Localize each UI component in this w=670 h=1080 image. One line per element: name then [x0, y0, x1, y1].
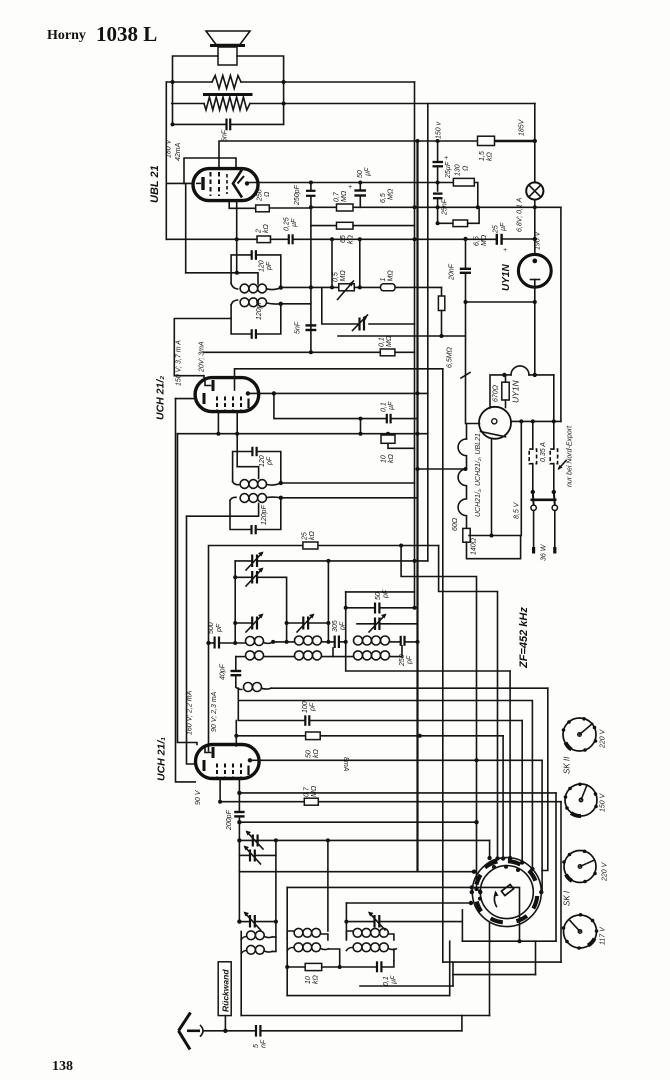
Rueckwand box [218, 962, 231, 1016]
svg-text:kΩ: kΩ [263, 224, 270, 234]
coil M2b [287, 948, 293, 951]
svg-text:500: 500 [208, 622, 215, 634]
svg-text:305: 305 [332, 620, 339, 632]
node tube1 anode [248, 758, 252, 762]
resistor 140 Ohm [463, 528, 470, 542]
resistor output primary [212, 76, 241, 89]
svg-text:+: + [503, 247, 507, 254]
coil L1a [246, 637, 255, 646]
wire row1 [220, 642, 246, 644]
wire bus C x427.8 [427, 104, 429, 561]
svg-text:MΩ: MΩ [386, 335, 393, 347]
knob SK I 220V [562, 850, 597, 884]
resistor 670 Ohm [505, 375, 507, 382]
coil IF1 primary [231, 284, 281, 293]
svg-text:pF: pF [310, 702, 317, 712]
wire 735.8 drop x503.1 [502, 736, 504, 859]
svg-text:10: 10 [381, 455, 388, 463]
resistor 130 Ohm [453, 178, 474, 186]
svg-text:Rückwand: Rückwand [221, 969, 231, 1012]
node heater junction [533, 373, 537, 377]
wire 25k line 545.5 [209, 546, 303, 752]
svg-text:µF: µF [500, 222, 507, 231]
svg-text:670Ω: 670Ω [493, 384, 500, 402]
svg-text:120pF: 120pF [261, 504, 268, 525]
wire below-circle rect 909.9 [461, 910, 463, 941]
node 822 x476.5 [474, 820, 478, 824]
svg-text:150 V: 150 V [600, 792, 607, 812]
svg-text:UCH 21/₁: UCH 21/₁ [156, 737, 168, 781]
wire osc box left [234, 561, 236, 643]
wire screen feed 140.7 [416, 139, 420, 143]
node 190V line [413, 237, 417, 241]
node IF1 top right [279, 285, 283, 289]
svg-text:160 V; 2,2 mA: 160 V; 2,2 mA [187, 690, 194, 735]
wire pot to grid resistor [354, 286, 380, 288]
wire 840 drop x489.6 [489, 840, 491, 858]
trimmer T2 [235, 576, 252, 578]
wire g4 line 369 [235, 369, 443, 378]
resistor 6,5 MOhm lower [438, 222, 453, 224]
tube UCH21/1 [196, 745, 260, 779]
tube1 grids [216, 764, 218, 778]
wire link 418-433 [360, 419, 362, 434]
arrow to fuse [559, 461, 566, 469]
knob SK II 220V [562, 717, 598, 752]
IF2 upper tank [233, 447, 281, 483]
resistor 10 kOhm ant [286, 939, 288, 996]
svg-text:90 V; 2,3 mA: 90 V; 2,3 mA [211, 691, 218, 732]
coil L1b [246, 651, 255, 660]
wire riser x287.2 [286, 887, 288, 938]
wire g2 line 142 [219, 141, 478, 169]
svg-text:0,1: 0,1 [383, 976, 390, 986]
wire UBL21 cathode stub [229, 201, 237, 209]
resistor 2 kOhm [257, 236, 271, 243]
wire antenna line 1030.8 [204, 1030, 255, 1032]
wire IF2b out [281, 497, 418, 499]
wire tube2 left pin [176, 398, 196, 400]
wire cathode line 239.3 [166, 238, 257, 240]
wire IF1 left return [174, 319, 231, 378]
resistor 65 kOhm [311, 225, 337, 227]
wire line 576.5 [401, 546, 476, 890]
coil L3a [354, 636, 363, 645]
svg-text:20nF: 20nF [449, 263, 456, 281]
svg-text:8mA: 8mA [342, 757, 349, 772]
wire IF2 tap return [187, 504, 259, 517]
svg-text:0,1: 0,1 [379, 337, 386, 347]
mains prongs 36W [533, 511, 535, 548]
svg-text:UBL 21: UBL 21 [149, 165, 161, 203]
wire top rail 82 [166, 81, 212, 83]
svg-text:117 V: 117 V [600, 926, 607, 945]
svg-text:kΩ: kΩ [348, 235, 355, 245]
svg-text:1,5: 1,5 [479, 151, 486, 161]
svg-text:kΩ: kΩ [313, 749, 320, 759]
svg-text:MΩ: MΩ [341, 190, 348, 202]
coil M1b [241, 951, 247, 954]
wire line 433.7 [178, 433, 428, 435]
transformer winding [204, 97, 250, 110]
trimmer T1 [251, 555, 253, 568]
wire long 903 [346, 902, 471, 904]
resistor 0,1 MOhm [380, 349, 395, 356]
wire rail to UCH1 grid [187, 516, 196, 764]
capacitor 100pF [304, 715, 306, 726]
trimmer T6 [252, 835, 254, 847]
resistor 1,5 kOhm [478, 136, 495, 145]
svg-text:µF: µF [291, 218, 298, 227]
wire IF2a out [281, 482, 415, 484]
trimmer T5 [357, 623, 374, 625]
svg-text:pF: pF [267, 456, 274, 466]
capacitor 200pF [234, 811, 244, 813]
capacitor 25uF main [496, 234, 498, 245]
tube1 top cathode [205, 748, 211, 753]
speaker LS [206, 31, 250, 65]
tube2 top cathode [205, 381, 211, 386]
wire 760 drop x542.1 [540, 760, 543, 892]
resistor 2 MOhm grid [381, 284, 396, 291]
wire barretter bottom drop [491, 438, 493, 535]
svg-text:6,5MΩ: 6,5MΩ [447, 346, 454, 368]
wire row2 [236, 656, 246, 658]
trimmer T9 [346, 921, 373, 923]
wire grid riser tube1 [235, 721, 237, 747]
capacitor 0,1uF ant [340, 966, 376, 968]
resistor 50 kOhm [306, 732, 321, 740]
capacitor 25uF screen [437, 141, 439, 161]
coil L1c [236, 687, 242, 690]
svg-text:ZF=452 kHz: ZF=452 kHz [518, 607, 530, 669]
wire x461.9 antenna join [461, 1016, 463, 1031]
svg-text:kΩ: kΩ [309, 531, 316, 541]
wire anode1 long 760 [250, 759, 542, 761]
IF1 lower tank [231, 299, 281, 338]
coil IF2 primary [233, 480, 281, 489]
svg-text:0,35 A: 0,35 A [540, 442, 547, 462]
capacitor 5nF tone [225, 119, 227, 131]
svg-text:20V; 3mA: 20V; 3mA [199, 341, 206, 373]
tube UBL21 grids [210, 172, 212, 196]
wire heater left drop [490, 375, 504, 408]
wire 50pF line [346, 591, 415, 593]
tube UCH21/2 [195, 378, 259, 412]
capacitor 250pF [400, 636, 402, 646]
svg-text:150 v: 150 v [436, 121, 443, 139]
wire right loop x560.9 [560, 207, 562, 421]
svg-text:Horny: Horny [47, 28, 86, 43]
wire 124.4 with cap [173, 123, 226, 125]
trimmer T8 [238, 872, 240, 922]
tube UBL21 diode anode [233, 170, 242, 198]
svg-text:pF: pF [266, 261, 273, 271]
coil M2a [287, 931, 294, 939]
node tube2 anode [246, 391, 250, 395]
wire IF1 grid tap [186, 273, 258, 284]
svg-text:180 V: 180 V [166, 138, 173, 158]
wire 40pF chain [235, 657, 237, 670]
svg-text:190 V: 190 V [535, 230, 542, 250]
svg-text:120: 120 [259, 455, 266, 467]
svg-text:90 V: 90 V [195, 789, 202, 805]
resistor 0,7MOhm osc [304, 798, 318, 805]
trimmer line 324 [322, 287, 358, 324]
wire 688 drop x547.8 [542, 688, 548, 870]
capacitor 5nF if [306, 324, 317, 326]
wire speaker right [237, 56, 284, 124]
svg-text:nur bei Nord-Export: nur bei Nord-Export [567, 425, 574, 487]
resistor 0,7 MOhm [337, 204, 354, 211]
wire osc riser x328 [327, 561, 329, 642]
svg-text:1: 1 [380, 278, 387, 282]
capacitor 0,25uF [288, 234, 290, 244]
svg-text:10: 10 [305, 976, 312, 984]
potentiometer 0,5 MOhm volume [339, 284, 355, 291]
svg-text:120: 120 [259, 260, 266, 272]
svg-text:60Ω: 60Ω [452, 517, 459, 531]
svg-text:140Ω: 140Ω [471, 537, 478, 555]
svg-text:8,5 V: 8,5 V [514, 501, 521, 519]
svg-text:Ω: Ω [264, 191, 271, 197]
node anode UBL21 [245, 181, 249, 185]
tube2 triode cathode [203, 393, 206, 404]
wire diode det line 287 [281, 286, 339, 288]
svg-text:SK II: SK II [563, 756, 572, 774]
svg-text:220 V: 220 V [600, 728, 607, 749]
knob 150V [564, 783, 598, 817]
trimmer T3 [235, 622, 252, 624]
svg-text:120pF: 120pF [256, 299, 263, 320]
wire IF1 sec out [281, 303, 311, 305]
svg-text:UCH21/₁, UCH21/₂, UBL21: UCH21/₁, UCH21/₂, UBL21 [475, 433, 482, 517]
wire long 840.4 [239, 839, 489, 841]
tube UBL21 [193, 169, 258, 201]
coil M3b [346, 948, 352, 951]
svg-text:250pF: 250pF [294, 184, 301, 206]
svg-text:MΩ: MΩ [388, 270, 395, 282]
antenna [179, 1013, 191, 1050]
wire bus B x417.5 thick [416, 141, 418, 872]
svg-text:6,5: 6,5 [474, 236, 481, 246]
svg-text:Ω: Ω [463, 165, 470, 171]
svg-text:µF: µF [391, 975, 398, 984]
node contacts left [470, 890, 474, 894]
svg-text:220 V: 220 V [602, 861, 609, 882]
wire x489.5 [489, 923, 491, 1016]
svg-text:+: + [348, 184, 352, 191]
wire screen line 207.3 [269, 207, 311, 209]
trimmer cap mid [358, 318, 360, 331]
coil M1a [241, 937, 247, 940]
svg-text:µF: µF [388, 401, 395, 410]
wire tube1 pins down [219, 779, 221, 802]
wire tube2 pins down [217, 412, 219, 434]
wire grid box UBL21 [184, 158, 236, 183]
wire x442.8 long [442, 369, 444, 962]
capacitor 50pF [346, 607, 374, 609]
wire heater chain entry [467, 424, 480, 439]
heater return rail slash [461, 373, 470, 379]
wire speaker left [173, 56, 219, 124]
wire long 822.2 [239, 821, 476, 823]
svg-text:138: 138 [52, 1059, 73, 1074]
wire UY1N cathode to 302 [534, 287, 536, 375]
coil M3a [346, 931, 353, 939]
IF1 transformer upper tank [231, 250, 281, 287]
wire fuse2 drop [553, 375, 555, 449]
capacitor 305pF [334, 636, 336, 649]
svg-text:1038 L: 1038 L [96, 22, 157, 46]
svg-text:kΩ: kΩ [313, 975, 320, 985]
svg-text:0,5: 0,5 [333, 272, 340, 282]
wire 8,5V link [469, 421, 521, 535]
resistor 250 Ohm [256, 205, 270, 212]
svg-text:25nF: 25nF [442, 198, 449, 216]
junction dots line82 [171, 80, 175, 84]
resistor 6,5MOhm vertical [441, 287, 443, 296]
switch DPST [531, 490, 535, 494]
wire long 871.7 [239, 871, 474, 873]
wire anode line 182 [247, 182, 453, 184]
tube1 triode cathode [203, 760, 206, 771]
svg-text:2: 2 [256, 229, 263, 234]
wire long 688 [271, 687, 548, 689]
svg-text:5: 5 [253, 1044, 260, 1048]
svg-text:200pF: 200pF [226, 809, 233, 831]
svg-text:50: 50 [357, 170, 364, 178]
svg-text:50: 50 [306, 750, 313, 758]
heater bumps UCH21 UCH21 UBL21 [458, 439, 466, 529]
svg-text:MΩ: MΩ [340, 270, 347, 282]
svg-text:36 W: 36 W [541, 543, 548, 561]
svg-text:MΩ: MΩ [388, 188, 395, 200]
wire 974.6 [453, 974, 536, 976]
svg-text:50: 50 [375, 592, 382, 600]
wire anode rail 103.5 [172, 103, 204, 105]
svg-text:5nF: 5nF [295, 321, 302, 334]
svg-text:0,7: 0,7 [304, 786, 311, 797]
coil L2b [295, 651, 304, 660]
wire 671 to switch [509, 671, 511, 857]
fuse 0,35A right [550, 449, 557, 464]
svg-text:UY1N: UY1N [501, 264, 512, 291]
wire avc riser x332 [331, 239, 333, 287]
coil L2a [295, 636, 304, 645]
wire long 995.6 [287, 995, 450, 997]
wire long 887.4 [287, 887, 519, 941]
svg-text:kΩ: kΩ [388, 454, 395, 464]
svg-text:6,5: 6,5 [380, 193, 387, 203]
wire 250pF riser [310, 183, 312, 191]
svg-text:UY1N: UY1N [511, 379, 521, 403]
resistor 10 kOhm [387, 434, 389, 435]
transformer core [203, 93, 253, 96]
svg-text:MΩ: MΩ [311, 785, 318, 797]
svg-text:pF: pF [383, 589, 390, 599]
wire anode2 line 393 [248, 392, 428, 394]
svg-text:0,1: 0,1 [381, 402, 388, 412]
svg-text:185V: 185V [519, 118, 526, 136]
tube UY1N rectifier [518, 254, 551, 287]
wire 720 drop x522.2 [521, 721, 523, 863]
tube UBL21 cathode [201, 177, 204, 190]
rotary switch SK I [472, 858, 541, 927]
wire long 735.8 [236, 735, 305, 737]
capacitor 20nF [465, 239, 467, 268]
wire L3b bottom 671 [346, 658, 510, 671]
wire left rail 166 [165, 82, 167, 239]
svg-text:kΩ: kΩ [487, 152, 494, 162]
capacitor 0,1uF [386, 414, 388, 424]
wire 986 [360, 985, 453, 987]
wire riser x346.4 [345, 903, 347, 940]
fuse 0,35A left [532, 421, 534, 449]
svg-text:pF: pF [216, 623, 223, 633]
rotor plate [501, 884, 513, 895]
svg-text:UCH 21/₂: UCH 21/₂ [155, 376, 167, 420]
svg-text:150 V; 3,7 m A: 150 V; 3,7 m A [176, 340, 183, 386]
resistor 25 kOhm [303, 542, 318, 549]
capacitor 25nF [433, 192, 443, 194]
wire long 720 [238, 688, 304, 720]
barretter circle [479, 407, 511, 439]
svg-text:µF: µF [365, 167, 372, 176]
svg-text:nF: nF [261, 1039, 268, 1048]
wire barretter right 421.4 [511, 420, 561, 422]
capacitor 50uF electrolytic [359, 183, 361, 190]
wire UBL21 grid feed [166, 182, 193, 184]
wire 801.7 drop x561 [560, 802, 562, 962]
wire long 801.7 [220, 801, 304, 803]
svg-text:+: + [444, 155, 448, 162]
wire 545 to switch [439, 546, 498, 859]
wire heater bump [504, 374, 511, 376]
wire line 352 [204, 351, 380, 353]
svg-text:pF: pF [407, 655, 414, 665]
svg-text:130: 130 [455, 164, 462, 176]
capacitor 500pF [206, 641, 210, 645]
wire 792.9 drop x556 [555, 793, 557, 941]
wire left riser x241.2 [240, 932, 242, 1016]
tube2 grids [216, 397, 218, 411]
wire heater link 469 [418, 468, 466, 470]
trimmer T7 loop [239, 854, 249, 856]
IF2 lower tank [230, 498, 281, 535]
svg-text:6,8V; 0,1 A: 6,8V; 0,1 A [517, 197, 524, 232]
svg-text:0,25: 0,25 [284, 217, 291, 231]
svg-text:25: 25 [302, 532, 309, 541]
wire long 792.9 [239, 792, 556, 794]
trimmer T4 [287, 622, 303, 624]
wire osc top line 560.9 [235, 560, 251, 562]
svg-text:25: 25 [493, 225, 500, 234]
svg-text:40pF: 40pF [220, 663, 227, 680]
svg-text:42mA: 42mA [175, 142, 182, 161]
svg-text:250: 250 [257, 189, 264, 202]
wire trim riser x275.9 [275, 855, 277, 921]
wire left rail2 down [178, 434, 198, 745]
capacitor 250pF [306, 190, 316, 192]
wire bus A x414.5 [414, 82, 416, 608]
wire bottom heater loop [467, 536, 521, 559]
coil IF1 secondary [231, 298, 281, 307]
svg-text:5nF: 5nF [222, 129, 229, 142]
coil L3b [354, 651, 363, 660]
knob 117V [562, 913, 599, 950]
wire left rail down [176, 399, 196, 782]
